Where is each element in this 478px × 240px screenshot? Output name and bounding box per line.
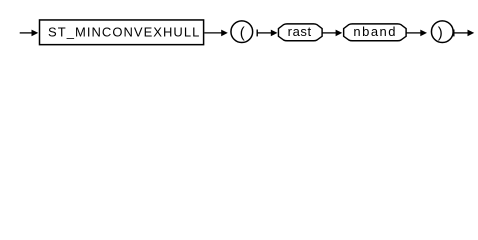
arrowhead into open-paren [221, 30, 228, 37]
terminal circle ( [231, 21, 253, 43]
arrowhead into nband [336, 30, 343, 37]
arrowhead into box [32, 30, 39, 37]
oval rast [278, 24, 322, 41]
background [0, 0, 478, 58]
junction tick after ( [256, 30, 258, 37]
wire: nband to close-paren [406, 32, 421, 34]
svg-text:nband: nband [353, 24, 397, 39]
arrowhead into close-paren [420, 30, 427, 37]
box ST_MINCONVEXHULL [40, 20, 204, 45]
arrowhead into rast [271, 30, 278, 37]
wire: start segment [20, 32, 32, 34]
wire: open-paren to rast [257, 32, 271, 34]
wire: end segment [454, 32, 468, 34]
svg-text:(: ( [240, 25, 245, 42]
oval nband [344, 24, 406, 41]
wire: box to open-paren [204, 32, 222, 34]
svg-text:ST_MINCONVEXHULL: ST_MINCONVEXHULL [48, 25, 200, 40]
svg-text:): ) [438, 25, 443, 42]
junction tick after ) [453, 30, 455, 37]
terminal circle ) [431, 21, 453, 43]
syntax diagram: ST_MINCONVEXHULL ( rast nband ) [0, 0, 478, 58]
wire: rast to nband [322, 32, 336, 34]
arrowhead at end [468, 30, 475, 37]
svg-text:rast: rast [288, 24, 312, 39]
